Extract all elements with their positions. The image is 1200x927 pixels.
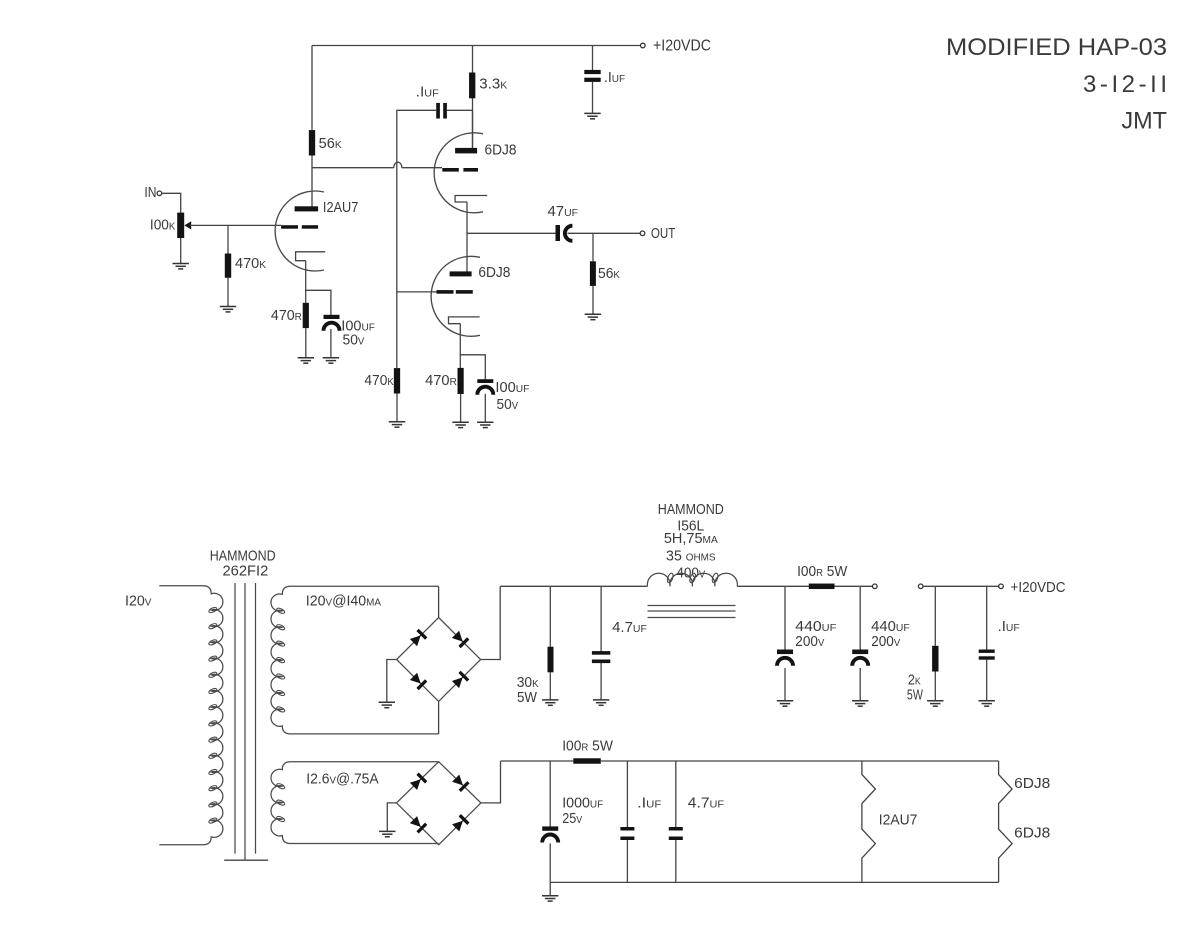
svg-text:I00k: I00k <box>150 217 176 233</box>
ground (30K) <box>542 700 558 705</box>
svg-text:56k: 56k <box>598 266 620 282</box>
wire wiper to 12AU7 grid <box>190 224 282 226</box>
label 12AU7 <box>323 200 359 216</box>
svg-text:5H,75ma: 5H,75ma <box>664 531 718 547</box>
label OUT <box>651 226 676 242</box>
label 47uF <box>548 204 579 220</box>
transformer core <box>235 583 256 860</box>
svg-text:I20v: I20v <box>125 594 152 610</box>
label 6DJ8 (heater upper) <box>1014 776 1050 792</box>
label .1uF (PSU) <box>998 619 1020 635</box>
wire lower 6DJ8 grid feed <box>397 291 437 293</box>
ground (12AU7 100uF) <box>323 358 339 363</box>
svg-text:35 ohms: 35 ohms <box>666 548 716 564</box>
resistor 100R 5W (B+ dropping) <box>809 584 835 590</box>
wire 470R to ground <box>305 328 307 358</box>
wire 470R lower to ground <box>460 394 462 422</box>
transformer core ground bar <box>224 859 268 861</box>
wire cathode node to 100uF (lower) <box>460 355 485 380</box>
wire bridge1 minus to ground <box>387 660 397 703</box>
cathode of lower 6DJ8 <box>449 317 480 324</box>
label 120V@140mA <box>306 594 382 610</box>
label 4.7uF (heater) <box>688 795 724 811</box>
transformer secondary 12.6V winding <box>271 762 439 844</box>
svg-text:440uf: 440uf <box>871 619 910 635</box>
transformer primary winding <box>159 586 223 845</box>
label 6DJ8 (heater lower) <box>1014 825 1050 841</box>
ground (.1uF PSU) <box>979 701 995 706</box>
svg-text:262FI2: 262FI2 <box>223 564 269 580</box>
wire heater rail top (right part) <box>601 760 999 762</box>
label 3.3K <box>479 77 507 93</box>
ground (heater supply) <box>542 896 558 901</box>
capacitor 4.7uF (heater) <box>669 827 683 840</box>
wire hop over vertical at crossing <box>394 162 402 168</box>
label 440uF (first) <box>795 619 836 635</box>
svg-text:.Iuf: .Iuf <box>604 70 625 86</box>
svg-text:I00uf: I00uf <box>495 380 529 396</box>
terminal B+ out (PSU side) <box>873 584 878 589</box>
label 30K <box>517 675 539 691</box>
pot wiper arrow <box>184 221 191 229</box>
label 35 ohms <box>666 548 716 564</box>
wire .1uF PSU branch <box>986 586 988 701</box>
wire 56K branch: rail down through plate of 12AU7 <box>311 46 313 207</box>
svg-text:.Iuf: .Iuf <box>637 795 661 811</box>
diode bridge2 bottom-right <box>451 814 469 832</box>
capacitor 440uF 200V (second filter) <box>852 650 868 666</box>
terminal +120VDC (top) <box>641 43 646 48</box>
wire 56K output-load branch <box>592 233 594 314</box>
heater string 12AU7 <box>862 761 876 882</box>
label HAMMOND (power transformer) <box>210 549 276 565</box>
wire heater rail top (left part) <box>501 760 574 762</box>
wire 440uF second branch <box>859 586 861 701</box>
ground (470K lower) <box>389 422 405 427</box>
diode bridge1 top-left <box>409 629 427 647</box>
wire bridge1 plus up to B+ rail <box>481 586 501 659</box>
label 56K (12AU7 plate load) <box>319 136 342 152</box>
svg-text:6DJ8: 6DJ8 <box>478 265 510 281</box>
wire IN to pot top <box>162 193 181 212</box>
wire 2K branch <box>934 586 936 701</box>
label 100uF (12AU7) <box>341 319 375 335</box>
resistor 470R (12AU7 cathode) <box>303 303 309 328</box>
wire B+ rail (right of choke) <box>737 585 872 587</box>
ground (440uF first) <box>777 701 793 706</box>
bridge 2 diamond <box>397 762 481 845</box>
svg-text:I000uf: I000uf <box>562 795 603 811</box>
svg-text:56k: 56k <box>319 136 342 152</box>
ground (56K output) <box>585 314 601 319</box>
wire 12AU7 cathode lead <box>305 261 307 303</box>
resistor 56K (output load) <box>590 261 596 286</box>
svg-text:4.7uf: 4.7uf <box>688 795 724 811</box>
label 100R 5W (B+) <box>797 564 848 580</box>
svg-text:I20v@I40ma: I20v@I40ma <box>306 594 382 610</box>
svg-text:440uf: 440uf <box>795 619 836 635</box>
cathode of 12AU7 <box>296 252 326 261</box>
diode bridge2 bottom-left <box>409 815 427 833</box>
label IN <box>144 185 156 201</box>
wire output node to 47uF <box>467 232 556 234</box>
label 100R 5W (heater) <box>562 738 613 754</box>
svg-text:30k: 30k <box>517 675 539 691</box>
label 120V (mains) <box>125 594 152 610</box>
label 5W (30K) <box>517 690 537 706</box>
label 156L <box>677 518 704 534</box>
label 4.7uF (B+) <box>612 620 647 636</box>
ground (bridge 2) <box>379 831 395 836</box>
label 12.6V@.75A <box>306 772 379 788</box>
wire B+ rail (left of choke) <box>500 585 647 587</box>
svg-text:6DJ8: 6DJ8 <box>1014 825 1050 841</box>
triode 12AU7 envelope <box>275 191 324 271</box>
diode bridge1 bottom-left <box>409 672 427 690</box>
wire 47uF to OUT terminal <box>568 232 641 234</box>
triode 6DJ8 lower envelope <box>431 256 480 336</box>
wire 100uF to ground <box>330 329 332 358</box>
label 12AU7 (heater) <box>879 812 918 828</box>
label 1000uF <box>562 795 603 811</box>
label 6DJ8 (upper) <box>485 143 517 159</box>
title date 3-12-11 <box>1083 71 1167 98</box>
svg-text:5W: 5W <box>907 688 923 704</box>
wire heater ground stub <box>549 882 551 895</box>
label 5W (2K) <box>907 688 923 704</box>
wire 4.7uF heater branch <box>675 761 677 882</box>
plate of 12AU7 <box>295 206 319 211</box>
wire secondary top to bridge 1 AC <box>438 586 440 617</box>
svg-text:+I20VDC: +I20VDC <box>1011 580 1066 596</box>
terminal +120VDC (PSU) <box>999 584 1004 589</box>
wire 470K grid-leak branch <box>227 225 229 306</box>
capacitor .1uF (feedback coupling) <box>436 103 447 119</box>
label 100K <box>150 217 176 233</box>
wire 4.7uF branch <box>600 586 602 700</box>
ground (100uF lower) <box>477 422 493 427</box>
label .1uF (coupling) <box>416 85 439 101</box>
capacitor .1uF (heater) <box>620 827 634 840</box>
label 262F12 <box>223 564 269 580</box>
svg-text:4.7uf: 4.7uf <box>612 620 647 636</box>
svg-text:6DJ8: 6DJ8 <box>485 143 517 159</box>
label +120VDC (PSU) <box>1011 580 1066 596</box>
wire .1uF heater branch <box>626 761 628 882</box>
svg-text:+I20VDC: +I20VDC <box>653 38 711 55</box>
svg-text:I2AU7: I2AU7 <box>323 200 359 216</box>
label 200V (first) <box>795 634 824 650</box>
wire .1uF right lead to 3.3K bottom <box>447 109 473 111</box>
wire pot bottom to ground <box>180 238 182 264</box>
label 56K (output) <box>598 266 620 282</box>
wire heater rail bottom <box>550 881 998 883</box>
svg-text:I00r 5W: I00r 5W <box>797 564 848 580</box>
capacitor .1uF (PSU output) <box>979 650 995 660</box>
ground (4.7uF B+) <box>593 700 609 705</box>
svg-text:200v: 200v <box>795 634 824 650</box>
wire 470K lower to ground <box>396 394 398 422</box>
wire 1000uF branch <box>549 761 551 882</box>
title initials JMT <box>1121 108 1167 135</box>
svg-text:I2.6v@.75A: I2.6v@.75A <box>306 772 379 788</box>
transformer primary crossover loops <box>208 606 217 824</box>
svg-text:JMT: JMT <box>1121 108 1167 135</box>
wire +120VDC rail (top) <box>312 45 640 47</box>
label 440uF (second) <box>871 619 910 635</box>
transformer secondary 120V crossover loops <box>276 607 285 713</box>
svg-text:MODIFIED HAP-03: MODIFIED HAP-03 <box>946 34 1167 61</box>
svg-text:200v: 200v <box>871 634 900 650</box>
diode bridge1 top-right <box>451 630 469 648</box>
wire .1uF bypass from rail <box>592 46 594 114</box>
svg-text:50v: 50v <box>343 333 365 349</box>
svg-text:HAMMOND: HAMMOND <box>658 502 724 518</box>
svg-text:OUT: OUT <box>651 226 676 242</box>
choke crossover loops <box>666 572 719 583</box>
ground (.1uF top right) <box>584 113 600 118</box>
label 470R (12AU7 cathode) <box>271 308 302 324</box>
wire 100uF lower to ground <box>484 394 486 422</box>
plate of lower 6DJ8 <box>450 271 472 276</box>
label 6DJ8 (lower) <box>478 265 510 281</box>
svg-text:470k: 470k <box>364 373 394 389</box>
label 5H,75mA <box>664 531 718 547</box>
svg-text:.Iuf: .Iuf <box>998 619 1020 635</box>
svg-text:HAMMOND: HAMMOND <box>210 549 276 565</box>
label 25V <box>562 811 582 827</box>
capacitor 1000uF 25V (heater filter) <box>542 826 558 842</box>
wire secondary bottom to bridge 1 AC <box>438 701 440 734</box>
resistor 470R (lower 6DJ8 cathode) <box>458 368 464 394</box>
label .1uF (heater) <box>637 795 661 811</box>
wire cathode node to 100uF <box>306 290 331 315</box>
wire 440uF first branch <box>784 586 786 701</box>
svg-text:47uf: 47uf <box>548 204 579 220</box>
resistor 2K 5W <box>932 646 938 672</box>
label 470K (grid leak) <box>235 256 266 272</box>
label +120VDC (top) <box>653 38 711 55</box>
cathode of upper 6DJ8 <box>455 196 487 203</box>
terminal B+ in (amp side) <box>918 584 923 589</box>
svg-text:470r: 470r <box>271 308 302 324</box>
svg-text:3.3k: 3.3k <box>479 77 507 93</box>
ground (470R lower) <box>452 422 468 427</box>
resistor 470K (12AU7 grid leak) <box>225 254 231 278</box>
label 200V (second) <box>871 634 900 650</box>
terminal IN <box>157 191 162 196</box>
svg-text:I2AU7: I2AU7 <box>879 812 918 828</box>
wire upper 6DJ8 cathode to lower 6DJ8 plate <box>466 202 468 272</box>
capacitor 440uF 200V (first filter) <box>777 650 793 666</box>
grid of upper 6DJ8 <box>442 168 478 172</box>
choke 156L winding <box>647 573 737 586</box>
bridge 1 diamond <box>397 618 481 702</box>
transformer secondary 120V winding <box>271 586 439 734</box>
title MODIFIED HAP-03 <box>946 34 1167 61</box>
svg-text:2k: 2k <box>908 672 921 688</box>
wire .1uF left lead and long vertical to 470K <box>397 110 436 368</box>
choke core <box>648 606 736 618</box>
diode bridge1 bottom-right <box>451 671 469 689</box>
wire bridge2 minus to ground <box>387 803 396 832</box>
resistor 470K (lower 6DJ8 grid) <box>394 368 400 393</box>
capacitor 100uF 50V (lower cathode bypass) <box>477 379 493 395</box>
grid of lower 6DJ8 <box>437 290 473 294</box>
svg-text:I00r 5W: I00r 5W <box>562 738 613 754</box>
svg-text:25v: 25v <box>562 811 582 827</box>
resistor 100R 5W (heater dropping) <box>573 758 601 764</box>
wire plate lead upper 6DJ8 <box>472 110 474 148</box>
ground (440uF second) <box>852 701 868 706</box>
label 400V <box>676 565 705 581</box>
capacitor 100uF 50V (12AU7 cathode bypass) <box>324 315 340 331</box>
ground (470K grid leak) <box>220 307 236 312</box>
capacitor 47uF curved plate <box>565 226 573 241</box>
potentiometer 100K (volume) <box>177 213 184 238</box>
plate of upper 6DJ8 <box>455 148 477 154</box>
label 470R (lower) <box>425 373 457 389</box>
label 2K <box>908 672 921 688</box>
label HAMMOND (choke) <box>658 502 724 518</box>
diode bridge2 top-left <box>409 773 427 791</box>
wire bridge2 plus up to heater rail <box>481 761 501 803</box>
triode 6DJ8 upper envelope <box>434 133 483 213</box>
transformer secondary 12.6V crossover loops <box>276 783 285 823</box>
capacitor 47uF (output coupling) plate <box>556 225 561 241</box>
heater string 6DJ8 pair <box>999 761 1013 882</box>
svg-text:6DJ8: 6DJ8 <box>1014 776 1050 792</box>
terminal OUT <box>640 231 645 236</box>
label 470K (lower) <box>364 373 394 389</box>
svg-text:.Iuf: .Iuf <box>416 85 439 101</box>
wire B+ umbilical segment <box>923 585 999 587</box>
label 100uF (lower) <box>495 380 529 396</box>
svg-text:3-I2-II: 3-I2-II <box>1083 71 1167 98</box>
label 50V (lower) <box>497 397 519 413</box>
capacitor 4.7uF (B+ filter) <box>592 651 610 663</box>
svg-text:50v: 50v <box>497 397 519 413</box>
capacitor .1uF (B+ bypass, top right) <box>584 70 600 82</box>
resistor 3.3K (6DJ8 plate load) <box>469 73 475 99</box>
wire lower 6DJ8 cathode lead <box>459 324 461 368</box>
wire 12AU7 plate to 6DJ8 grid (direct coupling) <box>312 167 442 169</box>
label .1uF (top right) <box>604 70 625 86</box>
ground (100K pot) <box>173 264 189 269</box>
wire 3.3K branch from rail <box>472 46 474 149</box>
resistor 56K (12AU7 plate load) <box>309 130 315 155</box>
wire 30K bleeder branch <box>549 586 551 700</box>
diode bridge2 top-right <box>451 774 469 792</box>
label 50V (12AU7) <box>343 333 365 349</box>
grid of 12AU7 <box>281 225 318 229</box>
resistor 30K 5W (bleeder) <box>548 647 554 673</box>
svg-text:470r: 470r <box>425 373 457 389</box>
svg-text:IN: IN <box>144 185 156 201</box>
ground (2K) <box>927 701 943 706</box>
ground (12AU7 470R) <box>298 358 314 363</box>
ground (bridge 1) <box>379 702 395 707</box>
svg-text:5W: 5W <box>517 690 537 706</box>
svg-text:470k: 470k <box>235 256 266 272</box>
